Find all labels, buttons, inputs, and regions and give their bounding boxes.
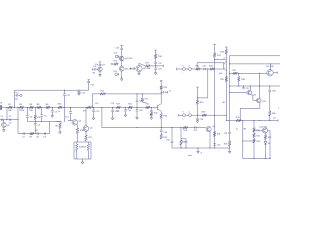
resistor R27 hanging bbox=[180, 139, 182, 140]
transistor Q10 bbox=[223, 62, 225, 69]
resistor R37 bbox=[233, 72, 238, 75]
svg-text:C32: C32 bbox=[217, 144, 220, 146]
wire y108 segment bbox=[240, 107, 260, 109]
capacitor C32 bbox=[213, 143, 216, 145]
ground below R22 bbox=[150, 116, 152, 118]
resistor R2 bbox=[20, 106, 24, 109]
resistor R25 bbox=[160, 134, 163, 139]
wire power loop right leg bbox=[48, 121, 50, 133]
svg-text:C15: C15 bbox=[95, 103, 98, 105]
capacitor C39 to ground bbox=[196, 115, 198, 118]
wire from main bus up at x14.5 bbox=[14, 90, 16, 107]
node ladder-bottom bbox=[253, 158, 254, 159]
capacitor C6 to ground bbox=[51, 107, 53, 110]
node M2 bbox=[142, 93, 143, 94]
capacitor C26 to ground bbox=[136, 107, 138, 109]
svg-text:o: o bbox=[278, 108, 279, 110]
polarized capacitor C13 to ground bbox=[78, 90, 79, 91]
capacitor C27 stub bbox=[161, 91, 163, 93]
wire supply y56 top rail bbox=[229, 55, 280, 57]
ground below Q9 bbox=[3, 127, 5, 130]
wire x259 from base bus down bbox=[259, 73, 261, 86]
polarized capacitor C19 bbox=[115, 55, 118, 58]
wire x229 riser top bbox=[228, 56, 230, 64]
node F bbox=[52, 107, 53, 108]
svg-text:4k7: 4k7 bbox=[222, 102, 225, 104]
wire supply y64 bbox=[230, 63, 280, 65]
resistor R10 bbox=[76, 128, 79, 134]
wire Q14 base bbox=[254, 130, 262, 132]
resistor R30 bbox=[196, 100, 199, 105]
node Y bbox=[229, 63, 230, 64]
wire x197 riser bbox=[196, 86, 198, 88]
resistor R38 drop bbox=[238, 73, 240, 76]
svg-text:R46: R46 bbox=[58, 104, 61, 106]
wire y69 chain bbox=[177, 68, 224, 70]
resistor R3 bbox=[29, 106, 33, 109]
svg-text:10u: 10u bbox=[15, 98, 18, 100]
resistor R14 bbox=[100, 93, 106, 96]
capacitor C23 below node K bbox=[155, 66, 157, 68]
capacitor C18 bbox=[121, 45, 123, 48]
input tick y69 bbox=[176, 68, 178, 71]
node AA bbox=[238, 73, 239, 74]
resistor R45 bbox=[264, 133, 267, 135]
resistor R13 bbox=[87, 142, 89, 144]
diode D1 bbox=[265, 139, 267, 141]
capacitor C11 below rail bbox=[64, 90, 66, 93]
node C bbox=[35, 107, 36, 108]
resistor R6 bbox=[46, 106, 50, 109]
ground below Q1 bbox=[99, 72, 101, 75]
resistor R9 bbox=[87, 106, 92, 109]
svg-text:R40: R40 bbox=[272, 113, 275, 115]
svg-text:R45: R45 bbox=[268, 137, 271, 139]
resistor R20 bbox=[128, 106, 132, 109]
wire Q13 collector bbox=[259, 86, 261, 98]
wire y158 bus bbox=[243, 158, 270, 160]
capacitor C14 coupling bbox=[70, 107, 72, 111]
resistor R33 bbox=[210, 68, 214, 71]
wire Q7 emitter down bbox=[160, 111, 162, 113]
svg-text:R42: R42 bbox=[256, 135, 259, 137]
node O2 bbox=[161, 93, 162, 94]
node J1a bbox=[6, 107, 7, 108]
wire Q5 emitter down bbox=[85, 131, 87, 135]
ground below C13 bbox=[78, 93, 81, 95]
wire x226 long rail bbox=[225, 54, 227, 121]
wire node K stub right bbox=[156, 65, 164, 67]
node G bbox=[41, 121, 42, 122]
capacitor C1 bbox=[1, 119, 3, 121]
svg-text:fb: fb bbox=[169, 90, 171, 92]
node K bbox=[155, 65, 156, 66]
wire node I down to Q5 bbox=[85, 107, 87, 125]
wire Q12 collector bbox=[249, 86, 251, 91]
transistor Q7 bbox=[157, 105, 159, 110]
node N bbox=[151, 107, 152, 108]
wire mid-left bus bbox=[27, 120, 60, 122]
resistor R34 on x226 rail bbox=[225, 46, 227, 48]
ground below C24 bbox=[124, 115, 127, 117]
node P bbox=[161, 127, 162, 128]
resistor R35 bbox=[225, 77, 228, 82]
wire Q13 emitter down bbox=[259, 103, 261, 109]
wire base of Q4 bbox=[68, 120, 73, 122]
capacitor C25 in drop bbox=[136, 93, 137, 94]
capacitor C16 to ground bbox=[112, 107, 113, 108]
polarized capacitor C40 to ground bbox=[141, 94, 143, 98]
wire Q12 emitter to Q13 base bbox=[251, 95, 253, 97]
wire x206 drop bbox=[207, 69, 209, 98]
wire y148 bus bbox=[172, 147, 230, 149]
svg-text:out: out bbox=[273, 117, 276, 120]
resistor R7 bbox=[30, 132, 34, 135]
node R27a bbox=[180, 147, 181, 148]
node wire2-x7 bbox=[6, 119, 7, 120]
capacitor C4 vertical bbox=[34, 123, 37, 125]
capacitor C41 at Q7 base bbox=[150, 107, 152, 110]
capacitor C28 below node P bbox=[160, 128, 162, 130]
connector circle P3 bbox=[183, 114, 186, 117]
wire power loop bottom bbox=[18, 133, 49, 135]
node main-x92 bbox=[92, 107, 93, 108]
svg-text:C39: C39 bbox=[200, 119, 203, 121]
svg-text:+9: +9 bbox=[223, 57, 225, 59]
wire x270 drop bbox=[269, 131, 271, 159]
net stub above R23 bbox=[160, 81, 162, 86]
wire x92.5 drop bbox=[92, 94, 94, 108]
wire bias network left bbox=[73, 142, 75, 159]
node V3 bbox=[214, 115, 215, 116]
emitter chain of Q4 bbox=[76, 123, 79, 126]
svg-text:3: 3 bbox=[183, 112, 184, 114]
wire y63.7 to Q10 base bbox=[197, 62, 224, 64]
svg-text:out1: out1 bbox=[188, 154, 192, 157]
transistor Q4 bbox=[72, 120, 78, 126]
svg-text:C36: C36 bbox=[224, 133, 227, 135]
node O bbox=[161, 92, 162, 93]
capacitor C15 to ground bbox=[93, 107, 94, 108]
node X bbox=[226, 115, 227, 116]
ground below C39 bbox=[196, 121, 199, 123]
capacitor C10 stub bbox=[15, 94, 16, 96]
capacitor C12 at rail end bbox=[88, 79, 90, 81]
svg-text:Q6 2SK: Q6 2SK bbox=[143, 68, 151, 70]
ground below C26 bbox=[136, 117, 139, 119]
resistor R19 bbox=[116, 106, 120, 109]
wire to power loop bbox=[17, 107, 19, 133]
ground below Q6 bbox=[138, 72, 140, 73]
node A bbox=[17, 107, 18, 108]
node main-x64 bbox=[63, 107, 64, 108]
capacitor C21 at Q6 base bbox=[130, 68, 132, 70]
transistor Q9 bbox=[3, 120, 5, 123]
node H bbox=[59, 121, 60, 122]
resistor R8 to ground bbox=[59, 121, 61, 123]
wire bridge y97.9 bbox=[197, 97, 207, 99]
capacitor C8 bbox=[36, 132, 38, 134]
svg-text:C37: C37 bbox=[246, 88, 249, 90]
svg-text:1: 1 bbox=[183, 65, 184, 67]
svg-text:1M: 1M bbox=[92, 72, 95, 74]
connector circle P1 bbox=[183, 68, 186, 71]
test point TP1 bbox=[20, 94, 22, 96]
wire x242 drop bbox=[242, 121, 244, 159]
resistor R24 bbox=[160, 113, 163, 118]
transistor Q14 bbox=[262, 128, 267, 133]
wire lower-left branch bbox=[0, 119, 18, 121]
wire Q14 out bbox=[268, 130, 270, 132]
node V bbox=[207, 68, 208, 69]
resistor R23 bbox=[160, 89, 162, 92]
ground below C6 bbox=[51, 116, 54, 118]
wire bias tap y141 bbox=[243, 140, 254, 142]
transistor Q6 bbox=[136, 66, 142, 72]
svg-text:1k: 1k bbox=[58, 111, 60, 113]
resistor R26 series bbox=[183, 126, 188, 129]
capacitor C31 hanging bbox=[185, 139, 187, 141]
node Z bbox=[229, 147, 230, 148]
wire rail y86 bbox=[230, 85, 280, 87]
node I bbox=[85, 107, 86, 108]
ground below Q3 bbox=[121, 71, 123, 79]
node wire2-x18 bbox=[17, 119, 18, 120]
transistor Q12 bbox=[247, 90, 252, 95]
wire x197 stub up bbox=[196, 63, 198, 69]
svg-text:C42: C42 bbox=[93, 66, 96, 68]
svg-text:C40: C40 bbox=[144, 99, 147, 101]
node P2 bbox=[136, 127, 137, 128]
resistor R21 bbox=[146, 106, 150, 109]
ground below C16 bbox=[111, 118, 114, 120]
svg-text:Q10: Q10 bbox=[219, 73, 223, 75]
supply dropper x214 bbox=[213, 44, 215, 46]
capacitor C36 in x229 bbox=[228, 131, 231, 133]
transistor Q5 bbox=[83, 126, 89, 132]
wire Q8 emitter bbox=[209, 131, 211, 148]
transistor Q3 bbox=[119, 66, 124, 71]
resistor R22 to ground bbox=[150, 111, 152, 114]
wire y120 bus bbox=[226, 120, 278, 122]
ground below R8 bbox=[59, 132, 62, 134]
capacitor C17 above Q1 bbox=[99, 61, 101, 63]
wire x229 rail bbox=[229, 64, 231, 132]
svg-text:C38: C38 bbox=[272, 90, 275, 92]
svg-text:R27: R27 bbox=[182, 142, 185, 144]
resistor R12 bbox=[76, 142, 78, 144]
connector circle P4 bbox=[189, 114, 192, 117]
svg-text:R28: R28 bbox=[217, 133, 220, 135]
capacitor C22 bbox=[155, 59, 157, 62]
svg-text:C16: C16 bbox=[111, 103, 114, 105]
node Q bbox=[171, 127, 172, 128]
node V2 bbox=[214, 68, 215, 69]
svg-text:Q2 2SC: Q2 2SC bbox=[125, 58, 133, 60]
svg-text:Q14 2SD: Q14 2SD bbox=[259, 126, 267, 128]
capacitor C7 bbox=[22, 132, 24, 134]
transistor Q11 bbox=[267, 70, 273, 76]
svg-text:D1: D1 bbox=[268, 143, 270, 145]
node main-x14 bbox=[14, 107, 15, 108]
resistor R4 vertical bbox=[34, 107, 36, 114]
resistor R40 bbox=[269, 111, 272, 116]
capacitor C30 in drop bbox=[171, 128, 173, 141]
svg-text:C10: C10 bbox=[15, 93, 18, 95]
resistor R28 bbox=[213, 132, 216, 137]
resistor ladder x254 bbox=[253, 121, 255, 128]
svg-text:4: 4 bbox=[189, 112, 190, 114]
node U bbox=[197, 68, 198, 69]
wire y115 bus bbox=[177, 114, 179, 116]
svg-text:o: o bbox=[183, 119, 184, 121]
wire Q11 emitter out bbox=[273, 72, 277, 74]
transistor Q13 bbox=[257, 98, 262, 103]
wire y127 bus bbox=[102, 127, 206, 129]
node C31a bbox=[185, 147, 186, 148]
wire bias network right bbox=[90, 142, 92, 159]
net stub above Q2 bbox=[121, 44, 123, 46]
capacitor C35 series bbox=[203, 68, 205, 70]
transistor Q1 bbox=[98, 67, 102, 71]
transistor Q2 bbox=[119, 56, 124, 61]
node M bbox=[136, 107, 137, 108]
wire bias network top bbox=[74, 141, 91, 143]
resistor R29 series bbox=[202, 114, 207, 117]
ground at x198 bbox=[197, 147, 198, 148]
resistor R32 bbox=[196, 68, 200, 71]
node E bbox=[41, 107, 42, 108]
wire to C1/C2 branch bbox=[6, 107, 8, 119]
node S bbox=[197, 115, 198, 116]
ground below x229 bbox=[228, 151, 231, 153]
wire y73 base bus bbox=[230, 72, 268, 74]
svg-text:10k: 10k bbox=[116, 110, 119, 112]
ground below bias network bbox=[82, 159, 84, 162]
ground below C23 bbox=[154, 73, 157, 75]
wire y92.7 bbox=[93, 93, 162, 95]
capacitor C29 series bbox=[194, 126, 196, 128]
node D bbox=[35, 121, 36, 122]
capacitor C24 to ground bbox=[124, 107, 126, 109]
resistor R36 bbox=[228, 141, 231, 146]
resistor R11 bbox=[85, 135, 88, 141]
input jack J1 bbox=[0, 105, 2, 110]
ground below C15 bbox=[92, 118, 95, 120]
node ladder join bbox=[214, 147, 215, 148]
capacitor C9 bbox=[43, 132, 45, 134]
capacitor C5 vertical bbox=[41, 107, 43, 114]
svg-text:2: 2 bbox=[189, 65, 190, 67]
wire Q12 base bbox=[230, 92, 248, 94]
node B bbox=[27, 107, 28, 108]
wire Q2 to Q3 bbox=[121, 56, 123, 61]
capacitor C42 at Q1 base bbox=[92, 68, 94, 70]
resistor R39 bbox=[236, 119, 241, 122]
wire x240 drop bbox=[239, 108, 241, 120]
wire x181 riser bbox=[180, 128, 182, 139]
wire main signal bus bbox=[3, 106, 158, 108]
capacitor C38 on x270 bbox=[269, 85, 270, 86]
node main-x70 bbox=[70, 107, 71, 108]
svg-text:R36: R36 bbox=[224, 143, 227, 145]
wire rail A bbox=[15, 89, 89, 91]
capacitor C2 bbox=[9, 119, 11, 121]
wire Q7 collector up bbox=[160, 92, 162, 103]
resistor R16 with X stub bbox=[111, 63, 113, 65]
node rail-x64 bbox=[64, 90, 65, 91]
connector circle P2 bbox=[189, 68, 192, 71]
polarized capacitor C20 bbox=[115, 73, 118, 76]
wire collector stub bbox=[215, 59, 227, 61]
svg-text:C17: C17 bbox=[102, 65, 105, 67]
wire bias network bottom bbox=[74, 158, 91, 160]
transistor Q8 bbox=[206, 127, 211, 132]
capacitor C37 below rail bbox=[243, 85, 244, 86]
resistor R5 bbox=[37, 106, 41, 109]
node L bbox=[125, 107, 126, 108]
svg-text:sp: sp bbox=[236, 128, 238, 130]
resistor R46 series bbox=[58, 106, 62, 109]
wire Q11 collector bbox=[269, 64, 271, 70]
resistor R18 above node K bbox=[154, 49, 156, 51]
ground below C40 bbox=[141, 100, 144, 102]
wire pair top bbox=[181, 138, 186, 140]
resistor R17 bbox=[146, 65, 150, 68]
resistor R1 bbox=[8, 106, 12, 109]
svg-text:R43: R43 bbox=[256, 141, 259, 143]
capacitor C3 on branch bbox=[26, 107, 28, 115]
wire y127 riser bbox=[101, 107, 103, 127]
